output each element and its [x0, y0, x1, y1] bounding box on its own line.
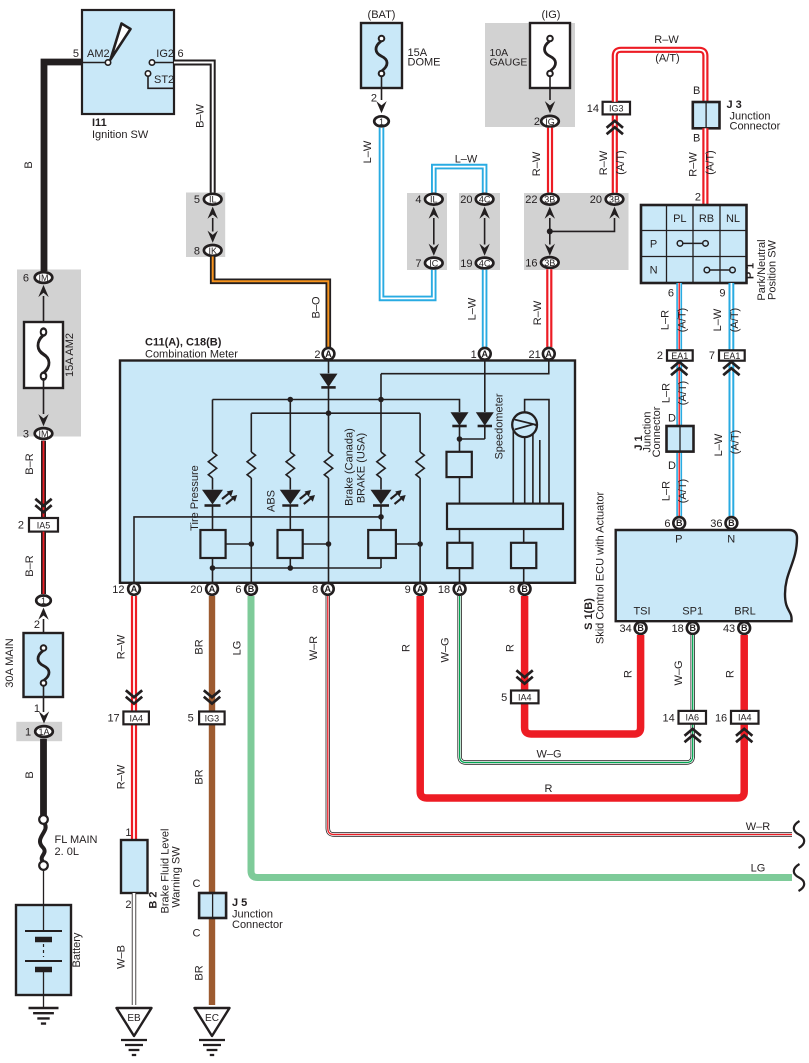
wire B-R from IA5 to splice 1	[41, 532, 46, 594]
svg-text:1: 1	[25, 726, 31, 738]
svg-text:EB: EB	[127, 1013, 141, 1024]
svg-text:18: 18	[672, 623, 684, 635]
svg-text:B–O: B–O	[311, 296, 323, 318]
svg-text:20: 20	[590, 194, 602, 206]
wire diode outputs join	[460, 426, 485, 452]
svg-text:8: 8	[312, 584, 318, 596]
svg-text:A: A	[131, 584, 138, 594]
N row contact	[704, 267, 710, 273]
wire square A to amplifier bar	[459, 477, 461, 504]
battery	[16, 905, 71, 995]
svg-text:2: 2	[657, 350, 663, 362]
wire R-W A/T from J3 down to P1 grid	[702, 128, 708, 205]
chevron down into 5 IG3	[204, 690, 220, 703]
svg-text:IG3: IG3	[205, 713, 220, 723]
svg-text:EA1: EA1	[723, 351, 740, 361]
svg-text:14: 14	[587, 103, 599, 115]
wire col2	[250, 413, 252, 595]
svg-text:B: B	[741, 623, 748, 633]
svg-text:R–W: R–W	[531, 151, 543, 176]
svg-text:B: B	[689, 623, 696, 633]
speedometer bypass wire	[525, 400, 549, 504]
svg-text:(A/T): (A/T)	[615, 150, 627, 174]
wire L-R A/T from P1 pin 6 to skid ECU P	[676, 283, 682, 516]
svg-text:(A/T): (A/T)	[677, 479, 689, 503]
svg-text:3B: 3B	[544, 258, 555, 268]
svg-text:LG: LG	[232, 641, 244, 656]
svg-text:(A/T): (A/T)	[677, 381, 689, 405]
arrow down into 2 IG	[545, 101, 555, 113]
wire R-W from meter 12A to B2	[131, 596, 137, 840]
wire 1A to right diode	[484, 361, 486, 412]
svg-text:EC: EC	[205, 1013, 219, 1024]
svg-text:IG3: IG3	[609, 104, 624, 114]
svg-text:5: 5	[188, 713, 194, 725]
wire R thick from meter 8B to IA4 and ECU TSI	[525, 596, 641, 734]
diode under 2A	[320, 374, 338, 388]
svg-text:RB: RB	[699, 213, 714, 225]
wire rail2	[251, 412, 420, 414]
svg-text:NL: NL	[726, 213, 740, 225]
resistor col5	[377, 452, 385, 478]
svg-text:19: 19	[460, 258, 472, 270]
svg-text:2. 0L: 2. 0L	[55, 846, 79, 858]
svg-text:R: R	[725, 670, 737, 678]
svg-text:20: 20	[460, 194, 472, 206]
gray box around IL/IC connectors	[407, 193, 447, 270]
fuse lead	[549, 76, 551, 100]
wire L-W from DOME to IC	[382, 128, 434, 299]
svg-text:6: 6	[23, 272, 29, 284]
wire R-W A/T loop from IG3 over to J3	[615, 50, 706, 102]
male arrow up into 1	[38, 608, 48, 620]
svg-text:B–R: B–R	[24, 453, 36, 474]
svg-text:N: N	[650, 265, 658, 277]
wire from fuse to 3 IM	[43, 378, 45, 414]
svg-text:IL: IL	[209, 195, 217, 205]
svg-text:L–R: L–R	[661, 383, 673, 403]
svg-text:R–W: R–W	[116, 634, 128, 659]
svg-text:J 3: J 3	[727, 99, 742, 111]
svg-text:N: N	[727, 534, 735, 546]
gray box around IM fuse column	[17, 270, 81, 437]
svg-text:W–B: W–B	[116, 945, 128, 969]
svg-text:D: D	[668, 460, 676, 472]
svg-text:1A: 1A	[38, 727, 49, 737]
female arrow down into 16 3B	[545, 244, 555, 256]
svg-text:43: 43	[723, 623, 735, 635]
svg-text:W–R: W–R	[746, 821, 771, 833]
speedometer coil wires	[513, 430, 540, 504]
svg-text:Connector: Connector	[730, 121, 781, 133]
wire col1 Tire Pressure branch	[212, 400, 214, 596]
svg-text:L–W: L–W	[466, 297, 478, 320]
wire BR from meter 20A to ground EC	[209, 596, 215, 1005]
speedometer gauge	[512, 412, 537, 437]
amplifier wide bar	[447, 504, 563, 529]
svg-text:1: 1	[34, 703, 40, 715]
svg-text:B 2: B 2	[148, 891, 160, 908]
resistor col1	[208, 452, 216, 478]
female arrow down into IK	[208, 231, 218, 243]
break squiggle on W-R	[794, 821, 804, 848]
wire bottom rail	[213, 567, 382, 569]
svg-text:IL: IL	[430, 195, 438, 205]
park/neutral position switch P1 grid	[641, 205, 747, 283]
svg-text:6: 6	[235, 584, 241, 596]
svg-text:B: B	[728, 518, 735, 528]
fuse 15A AM2	[24, 322, 63, 388]
wire from 21A across to Brake column	[381, 361, 549, 374]
svg-text:BR: BR	[194, 639, 206, 654]
wire stub square3 to col4	[302, 543, 328, 545]
svg-text:14: 14	[663, 713, 675, 725]
svg-text:8: 8	[509, 584, 515, 596]
svg-text:(A/T): (A/T)	[677, 308, 689, 332]
wire from arrow to 15A AM2 fuse	[43, 296, 45, 330]
svg-text:(IG): (IG)	[542, 9, 561, 21]
svg-text:A: A	[546, 349, 553, 359]
diode left of 1A column	[451, 412, 469, 426]
break squiggle on LG	[794, 864, 804, 891]
driver square col1	[200, 530, 225, 558]
chevron up under 14 IA6	[685, 729, 701, 742]
svg-text:L–R: L–R	[660, 310, 672, 330]
wire B-W from IG2 to IL connector	[174, 63, 213, 193]
connector 1 oval	[36, 596, 51, 606]
wire stub square5 to col6	[396, 543, 420, 545]
svg-text:(A/T): (A/T)	[729, 308, 741, 332]
wire W-G from meter 18A to IA6 and ECU SP1	[460, 596, 693, 763]
chevron down into 5 IA4	[516, 670, 532, 683]
output square 18A	[447, 543, 472, 568]
svg-text:A: A	[325, 584, 332, 594]
driver square col3	[278, 530, 303, 558]
svg-text:2: 2	[125, 899, 131, 911]
svg-text:A: A	[417, 584, 424, 594]
resistor col6	[416, 452, 424, 478]
female arrow down into 3 IM	[38, 414, 48, 426]
svg-text:P 1: P 1	[745, 263, 757, 279]
Tire Pressure indicator LED	[202, 490, 237, 506]
svg-text:BR: BR	[194, 769, 206, 784]
svg-text:R: R	[401, 644, 413, 652]
junction dots inside meter	[288, 397, 294, 403]
svg-text:FL MAIN: FL MAIN	[55, 834, 98, 846]
svg-text:B–W: B–W	[195, 103, 207, 127]
resistor col4	[324, 452, 332, 478]
svg-text:D: D	[668, 413, 676, 425]
svg-text:3B: 3B	[544, 195, 555, 205]
svg-text:21: 21	[529, 349, 541, 361]
svg-text:4C: 4C	[479, 195, 491, 205]
svg-text:L–W: L–W	[713, 433, 725, 456]
svg-text:IG: IG	[545, 117, 555, 127]
svg-text:W–G: W–G	[440, 637, 452, 662]
svg-text:PL: PL	[673, 213, 686, 225]
svg-text:A: A	[482, 349, 489, 359]
svg-text:1: 1	[125, 827, 131, 839]
svg-text:2: 2	[314, 349, 320, 361]
svg-text:17: 17	[107, 713, 119, 725]
fusible link FL MAIN 2.0L	[39, 815, 48, 824]
connector 1 oval	[374, 116, 389, 126]
svg-text:Brake (Canada): Brake (Canada)	[344, 428, 356, 506]
svg-text:Skid Control ECU with Actuator: Skid Control ECU with Actuator	[595, 492, 607, 645]
svg-text:2: 2	[371, 93, 377, 105]
svg-text:6: 6	[668, 288, 674, 300]
wire B-R from 3 IM to IA5	[41, 441, 46, 517]
svg-text:Position SW: Position SW	[767, 239, 779, 300]
wire L-W from 19 4C to meter 1A	[482, 270, 488, 347]
svg-text:W–G: W–G	[673, 660, 685, 685]
wire R-W from IG fuse to 22 3B	[547, 128, 553, 193]
fuse 30A MAIN	[24, 633, 64, 697]
svg-text:BRL: BRL	[734, 606, 755, 618]
svg-text:(A/T): (A/T)	[730, 430, 742, 454]
svg-text:B: B	[637, 623, 644, 633]
gray box around 4C connectors	[459, 193, 500, 270]
gray box around 1A connector	[16, 722, 62, 741]
svg-text:5: 5	[73, 48, 79, 60]
svg-text:L–R: L–R	[661, 481, 673, 501]
svg-text:R: R	[505, 644, 517, 652]
fuse lead	[381, 76, 383, 100]
wire R thick from meter 9A to IA4 and ECU BRL	[420, 596, 744, 798]
svg-text:A: A	[325, 349, 332, 359]
svg-text:IK: IK	[208, 246, 217, 256]
svg-text:Connector: Connector	[651, 406, 663, 457]
gray box around IL/IK connectors	[186, 193, 225, 258]
male arrow up into 4C	[479, 207, 489, 219]
svg-text:IM: IM	[39, 429, 49, 439]
svg-text:5: 5	[501, 692, 507, 704]
svg-text:Tire Pressure: Tire Pressure	[189, 465, 201, 531]
svg-text:4C: 4C	[479, 258, 491, 268]
male arrow up into 20 3B	[609, 207, 619, 219]
AM2 terminal contact and lead	[82, 62, 105, 64]
svg-text:B–R: B–R	[24, 555, 36, 576]
svg-text:1: 1	[379, 117, 384, 127]
wire between 3B connectors	[549, 218, 551, 245]
svg-text:18: 18	[438, 584, 450, 596]
male arrow up into IL	[208, 207, 218, 219]
Brake indicator LED	[371, 490, 406, 506]
svg-text:P: P	[650, 239, 657, 251]
svg-text:SP1: SP1	[682, 606, 703, 618]
svg-text:BR: BR	[194, 965, 206, 980]
svg-text:R–W: R–W	[688, 152, 700, 177]
square A under diodes	[447, 452, 472, 477]
svg-text:Warning SW: Warning SW	[171, 846, 183, 908]
resistor col3	[286, 452, 294, 478]
svg-text:W–G: W–G	[536, 749, 561, 761]
wire W-R from meter 8A to right edge	[328, 596, 792, 835]
svg-text:16: 16	[715, 713, 727, 725]
svg-text:Combination Meter: Combination Meter	[145, 349, 238, 361]
svg-text:L–W: L–W	[712, 308, 724, 331]
svg-text:S 1(B): S 1(B)	[583, 598, 595, 630]
skid control ECU with actuator box	[616, 530, 797, 621]
svg-text:ABS: ABS	[266, 490, 278, 512]
male arrow up into IL	[429, 207, 439, 219]
junction node on 3B link	[547, 228, 553, 234]
svg-text:A: A	[456, 584, 463, 594]
svg-text:6: 6	[664, 518, 670, 530]
wire between IL and IC	[433, 218, 435, 245]
gray box around 3B connectors	[524, 193, 629, 270]
svg-text:B: B	[676, 518, 683, 528]
ignition key wedge	[111, 24, 131, 60]
driver square col5	[368, 530, 396, 558]
wire B thick from 1A to FL MAIN	[40, 739, 47, 816]
svg-text:P: P	[675, 534, 682, 546]
svg-text:Battery: Battery	[71, 932, 83, 967]
wire W-B from B2 to ground EB	[132, 893, 136, 1005]
svg-text:16: 16	[525, 257, 537, 269]
diode under 1A	[476, 412, 494, 426]
male arrow up into IM	[38, 285, 48, 297]
svg-text:9: 9	[719, 288, 725, 300]
svg-text:R–W: R–W	[598, 150, 610, 175]
chevron up into IG3	[607, 121, 623, 134]
fuse 15A DOME	[361, 23, 402, 88]
junction connector J3	[693, 102, 720, 128]
junction connector J5	[199, 893, 226, 918]
svg-text:12: 12	[112, 584, 124, 596]
svg-text:15A AM2: 15A AM2	[64, 333, 76, 377]
wire R-W from 16 3B to meter 21A	[546, 269, 552, 347]
svg-text:8: 8	[194, 245, 200, 257]
svg-text:B: B	[248, 584, 255, 594]
svg-text:6: 6	[178, 48, 184, 60]
svg-text:I11: I11	[92, 117, 107, 129]
svg-text:C11(A), C18(B): C11(A), C18(B)	[145, 337, 222, 349]
svg-text:C: C	[193, 928, 201, 940]
svg-text:DOME: DOME	[408, 57, 441, 69]
fuse 10A GAUGE	[530, 23, 570, 88]
svg-text:9: 9	[405, 584, 411, 596]
svg-text:1: 1	[471, 349, 477, 361]
resistor col2	[247, 452, 255, 478]
svg-text:C: C	[193, 878, 201, 890]
svg-text:B: B	[693, 85, 700, 97]
wire col4 from 2A through diode and resistor to 8A	[328, 361, 330, 595]
svg-text:LG: LG	[751, 863, 766, 875]
svg-text:22: 22	[525, 194, 537, 206]
gray box around 10A GAUGE fuse	[485, 23, 575, 127]
ABS indicator LED	[280, 490, 315, 506]
svg-text:2: 2	[695, 192, 701, 204]
svg-text:5: 5	[194, 194, 200, 206]
wire col5 Brake branch	[380, 374, 382, 568]
wire L-W loop IL to 4C	[434, 167, 485, 193]
svg-text:IM: IM	[39, 273, 49, 283]
svg-text:36: 36	[710, 518, 722, 530]
wire to battery	[43, 870, 45, 905]
svg-text:TSI: TSI	[633, 606, 650, 618]
arrow down into splice 1	[376, 101, 386, 113]
svg-text:30A MAIN: 30A MAIN	[4, 638, 16, 688]
svg-text:R–W: R–W	[532, 300, 544, 325]
wire below 30A MAIN	[43, 685, 45, 712]
svg-text:3B: 3B	[609, 195, 620, 205]
svg-text:IC: IC	[429, 258, 439, 268]
svg-text:A: A	[209, 584, 216, 594]
svg-text:L–W: L–W	[362, 140, 374, 163]
P row contact	[677, 241, 683, 247]
svg-text:Ignition SW: Ignition SW	[92, 129, 149, 141]
junction connector J1	[667, 426, 694, 452]
wire B thick from ignition AM2 down left side	[44, 62, 82, 271]
svg-text:Speedometer: Speedometer	[494, 393, 506, 459]
svg-text:R: R	[623, 670, 635, 678]
ground point EC	[195, 1008, 230, 1036]
svg-text:(A/T): (A/T)	[655, 53, 679, 65]
svg-text:1: 1	[41, 596, 46, 606]
svg-text:IA4: IA4	[518, 692, 532, 702]
svg-text:Connector: Connector	[232, 919, 283, 931]
svg-text:3: 3	[23, 428, 29, 440]
wire LG from meter 6B to right edge	[251, 596, 792, 878]
svg-text:GAUGE: GAUGE	[490, 57, 528, 69]
wire R-W A/T from 20 3B up to IG3	[612, 114, 618, 193]
female arrow down into IC	[429, 244, 439, 256]
svg-text:IG2: IG2	[156, 48, 174, 60]
svg-text:4: 4	[415, 194, 421, 206]
svg-text:(BAT): (BAT)	[368, 9, 396, 21]
svg-text:J 5: J 5	[232, 897, 247, 909]
battery ground wire	[43, 995, 45, 1008]
ground below battery	[29, 1008, 59, 1024]
male arrow up into 22 3B	[545, 207, 555, 219]
svg-text:B: B	[23, 161, 35, 168]
chevron down into 17 IA4	[126, 690, 142, 703]
ST2 terminal contact and lead	[145, 71, 150, 76]
IG2 terminal contact and lead	[149, 60, 154, 65]
chevron up under EA1 right	[723, 362, 739, 375]
branch wire to 20 3B	[550, 218, 615, 231]
chevron up under EA1	[671, 362, 687, 375]
svg-text:7: 7	[709, 350, 715, 362]
wire between IL and IK	[212, 218, 214, 232]
svg-text:2: 2	[534, 116, 540, 128]
wire to 30A MAIN	[43, 619, 45, 646]
svg-text:ST2: ST2	[154, 74, 174, 86]
svg-text:R–W: R–W	[116, 764, 128, 789]
wire between 4C pair	[484, 218, 486, 245]
svg-text:2: 2	[18, 520, 24, 532]
svg-text:(A/T): (A/T)	[705, 150, 717, 174]
svg-text:IA6: IA6	[685, 713, 699, 723]
wire B-O from IK to combination meter pin 2A	[213, 257, 329, 348]
svg-text:34: 34	[620, 623, 632, 635]
combination meter C11(A) C18(B) box	[120, 361, 575, 583]
svg-text:L–W: L–W	[455, 154, 478, 166]
svg-text:AM2: AM2	[87, 48, 110, 60]
chevron arrow down into IA5	[35, 499, 51, 512]
svg-text:2: 2	[34, 619, 40, 631]
svg-text:R: R	[545, 783, 553, 795]
wire 12A tap line	[134, 517, 381, 595]
svg-text:IA4: IA4	[738, 713, 752, 723]
brake fluid level warning switch B2	[121, 840, 148, 893]
wire col3 ABS branch	[289, 400, 291, 569]
svg-text:B: B	[693, 133, 700, 145]
wire rail1 to left diode	[213, 400, 460, 413]
svg-text:7: 7	[415, 258, 421, 270]
svg-text:B: B	[521, 584, 528, 594]
